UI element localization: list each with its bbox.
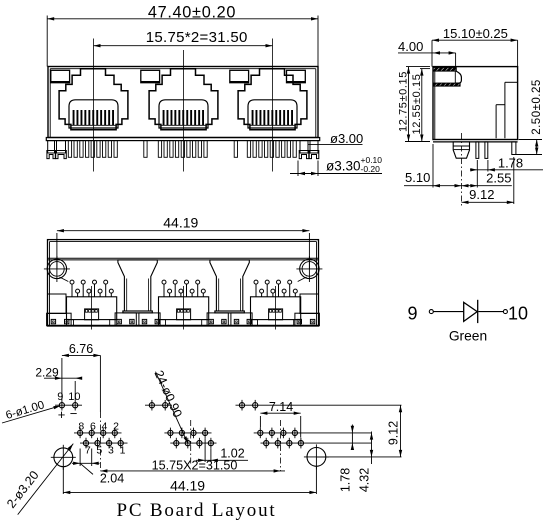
svg-text:9.12: 9.12 <box>387 421 401 445</box>
svg-text:4.00: 4.00 <box>398 39 423 54</box>
svg-text:1.78: 1.78 <box>339 468 353 492</box>
svg-text:47.40±0.20: 47.40±0.20 <box>148 4 236 22</box>
svg-text:2.55: 2.55 <box>486 171 511 186</box>
svg-text:1.78: 1.78 <box>498 156 523 171</box>
svg-text:-0.20: -0.20 <box>361 164 381 174</box>
svg-text:3: 3 <box>108 444 114 456</box>
svg-text:15.75*2=31.50: 15.75*2=31.50 <box>146 29 248 46</box>
svg-text:2.04: 2.04 <box>100 472 124 486</box>
svg-text:ø3.00: ø3.00 <box>330 131 363 146</box>
svg-text:2.50±0.25: 2.50±0.25 <box>531 79 543 135</box>
svg-text:9: 9 <box>407 304 417 324</box>
svg-text:15.10±0.25: 15.10±0.25 <box>443 26 508 41</box>
svg-text:ø3.30: ø3.30 <box>326 159 361 174</box>
svg-text:6: 6 <box>90 421 96 433</box>
svg-text:4: 4 <box>101 421 107 433</box>
svg-text:10: 10 <box>508 304 528 324</box>
svg-text:2: 2 <box>113 421 119 433</box>
svg-text:10: 10 <box>68 391 80 403</box>
svg-text:44.19: 44.19 <box>163 215 198 231</box>
svg-text:Green: Green <box>449 328 487 343</box>
svg-text:8: 8 <box>78 421 84 433</box>
svg-text:44.19: 44.19 <box>170 477 205 493</box>
svg-text:1: 1 <box>120 444 126 456</box>
svg-text:7: 7 <box>85 444 91 456</box>
svg-text:12.75±0.15: 12.75±0.15 <box>398 71 410 132</box>
svg-text:15.75X2=31.50: 15.75X2=31.50 <box>152 459 238 473</box>
svg-text:+: + <box>58 407 66 422</box>
svg-text:2-ø3.20: 2-ø3.20 <box>4 468 42 511</box>
svg-text:9: 9 <box>57 391 63 403</box>
svg-text:4.32: 4.32 <box>358 468 372 492</box>
svg-text:2.29: 2.29 <box>35 365 59 379</box>
svg-text:−: − <box>70 406 78 421</box>
svg-text:6.76: 6.76 <box>69 342 93 356</box>
svg-text:9.12: 9.12 <box>469 187 494 202</box>
svg-text:12.55±0.15: 12.55±0.15 <box>411 74 423 135</box>
svg-text:5: 5 <box>96 444 102 456</box>
svg-text:24-ø0.90: 24-ø0.90 <box>151 368 184 419</box>
svg-text:7.14: 7.14 <box>269 400 293 414</box>
svg-text:6-ø1.00: 6-ø1.00 <box>4 399 45 422</box>
svg-text:PC Board Layout: PC Board Layout <box>117 500 277 521</box>
svg-text:5.10: 5.10 <box>405 170 430 185</box>
